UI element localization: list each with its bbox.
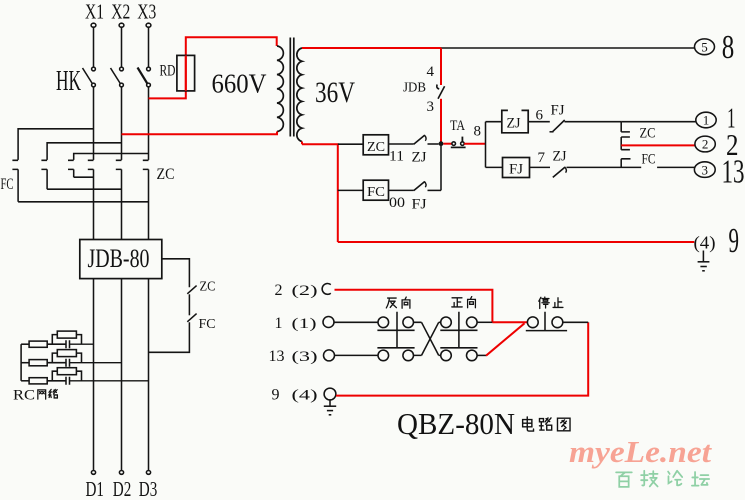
terminal X2 [119, 23, 124, 27]
svg-text:JDB-80: JDB-80 [88, 244, 150, 273]
terminal 2 [695, 136, 715, 152]
terminal 3 [694, 162, 715, 178]
button reverse plunger [377, 312, 414, 348]
svg-text:myeLe.net: myeLe.net [569, 434, 712, 469]
contact TA transformer tap [443, 137, 465, 148]
wire red phase3 to fuse RD [149, 37, 277, 98]
wire cross diagonal a [422, 322, 439, 355]
contact FC auxiliary chevron [187, 314, 196, 322]
RC branch 1 resistor R1 [21, 341, 66, 347]
RC network left bus [20, 344, 22, 381]
terminal 5 [695, 39, 715, 55]
interlock middle section [621, 137, 630, 150]
svg-text:(4): (4) [292, 388, 318, 404]
transformer core [290, 38, 294, 137]
wire FC crossover a to phase3 [18, 201, 148, 203]
svg-text:5: 5 [701, 40, 708, 55]
terminal D1 [91, 471, 95, 475]
wire red bottom bus to terminal 4 [338, 241, 694, 243]
svg-text:ZJ: ZJ [412, 150, 427, 166]
label 13(3) [269, 348, 318, 365]
label 9(4) [272, 387, 318, 404]
RC branch 1 parallel resistor [52, 331, 81, 344]
wire FC crossover b to phase2 [47, 188, 121, 190]
svg-text:ZJ: ZJ [507, 116, 521, 132]
svg-text:(3): (3) [292, 349, 318, 365]
svg-text:11: 11 [389, 149, 404, 165]
contact ZJ normally-open row2 [553, 167, 641, 178]
coil box FC [363, 180, 388, 200]
svg-text:D3: D3 [139, 477, 158, 500]
wire red secondary top [302, 47, 441, 49]
wire phase3 to D3 [148, 279, 150, 471]
fuse RD [177, 55, 195, 91]
svg-text:FC: FC [367, 185, 385, 200]
RC branch 1 capacitor C1 [66, 340, 94, 348]
RC branch 2 resistor R2 [21, 360, 66, 366]
wire red diagonal interlock [486, 323, 525, 355]
wire red JDB contact lower [440, 99, 442, 144]
label tingzhi stop [539, 297, 563, 308]
wire red JDB contact upper [440, 48, 442, 85]
wire phase1 branch to FC contact 1 [18, 129, 93, 160]
wire forward top to junction [477, 321, 492, 323]
terminal 13(3) [324, 350, 335, 361]
svg-text:FJ: FJ [412, 197, 427, 213]
svg-text:(4): (4) [694, 233, 716, 254]
svg-text:1: 1 [275, 315, 283, 332]
wire phase 1 vertical [93, 87, 95, 160]
wire red terminal2 to stop branch [335, 290, 493, 323]
wire stop to red return [563, 321, 588, 323]
protection relay JDB-80 [80, 240, 162, 279]
terminal 1(1) [323, 317, 334, 328]
svg-text:FJ: FJ [551, 103, 565, 119]
svg-text:660V: 660V [212, 69, 267, 99]
contact ZC pole c [143, 160, 149, 239]
wire aux branch to phase3 [149, 322, 190, 352]
contact ZC auxiliary chevron [187, 286, 196, 294]
wire to FJ coil [486, 166, 503, 168]
label 1(1) [275, 315, 317, 332]
svg-text:8: 8 [722, 29, 735, 66]
contact FC pole b [41, 160, 47, 189]
wire phase3 branch to FC contact 3 [74, 154, 149, 160]
svg-text:TA: TA [450, 118, 465, 134]
wire relay branch vertical [485, 122, 487, 168]
contact ZC pole b [116, 160, 122, 239]
interlock contact FC right [621, 159, 630, 168]
RC branch 2 parallel resistor [52, 350, 81, 363]
svg-text:RD: RD [160, 63, 176, 80]
RC branch 3 parallel resistor [52, 368, 81, 381]
switch HK pole 3 [138, 27, 151, 87]
terminal X3 [146, 23, 151, 27]
svg-text:ZC: ZC [640, 125, 656, 141]
svg-text:(2): (2) [292, 283, 318, 299]
svg-text:3: 3 [427, 99, 435, 115]
svg-text:X1: X1 [85, 0, 104, 24]
svg-text:2: 2 [275, 282, 283, 299]
svg-text:ZC: ZC [200, 280, 216, 295]
RC branch 2 capacitor C2 [66, 359, 122, 367]
wire FC crossover c to phase1 [74, 176, 94, 178]
wire secondary to ZC coil [338, 143, 363, 145]
svg-text:FC: FC [1, 176, 14, 193]
wire phase1 to D1 [93, 279, 95, 471]
svg-text:1: 1 [703, 113, 710, 128]
svg-text:9: 9 [272, 387, 280, 404]
RC branch 3 capacitor C3 [66, 377, 149, 385]
interlock contact ZC right [621, 122, 630, 132]
wire terminal13 to reverse button [335, 354, 378, 356]
label 2(2) [275, 282, 318, 299]
svg-text:X3: X3 [137, 0, 156, 24]
wire red terminal9 to stop return [336, 322, 588, 395]
wire red TA to relay branch [464, 143, 485, 145]
button stop NC contact [527, 317, 562, 328]
wire row1 to terminal 1 [621, 121, 696, 123]
wire FC coil to FJ contact [389, 189, 414, 191]
wire FJ row up to TA junction [440, 146, 442, 190]
contact FC pole c [68, 160, 74, 177]
contact JDB interlock [437, 85, 445, 99]
svg-text:RC: RC [13, 388, 35, 404]
relay coil ZJ [502, 110, 528, 132]
svg-text:7: 7 [538, 150, 546, 166]
terminal D2 [119, 471, 123, 475]
svg-text:HK: HK [56, 65, 81, 97]
watermark baiji luntan [616, 471, 709, 487]
terminal X1 [91, 23, 96, 27]
wire between aux contacts [188, 294, 190, 315]
wire red primary bottom to phase 2 [122, 132, 278, 135]
svg-text:JDB: JDB [403, 81, 426, 96]
relay coil FJ [503, 158, 530, 178]
ground symbol right [698, 251, 710, 271]
svg-text:8: 8 [474, 124, 482, 140]
label zhengxiang forward [452, 297, 476, 308]
RC branch 3 resistor R3 [21, 378, 66, 384]
svg-text:FJ: FJ [509, 162, 523, 178]
svg-text:36V: 36V [315, 76, 355, 109]
svg-text:13: 13 [269, 348, 285, 365]
wire forward bottom stub [477, 354, 486, 356]
terminal 9(4) [324, 388, 336, 400]
wire row3 to terminal 13 [657, 166, 696, 168]
terminal 1 [696, 112, 716, 128]
label fanxiang reverse [386, 297, 410, 308]
wire cross stub top [414, 321, 441, 323]
contact FJ normally-closed [550, 120, 622, 132]
contact FJ normally-open [414, 181, 441, 190]
svg-text:ZC: ZC [157, 166, 175, 183]
wire FJ coil to ZJ no contact [530, 166, 551, 168]
wire to ZJ coil [486, 121, 502, 123]
svg-text:3: 3 [702, 162, 709, 177]
wire phase2 branch to FC contact 2 [47, 143, 121, 160]
transformer T1 primary winding 660V [277, 46, 283, 132]
switch HK pole 2 [111, 27, 124, 87]
wire cross diagonal b [422, 322, 439, 355]
svg-text:4: 4 [427, 64, 435, 80]
transformer T1 secondary winding 36V [297, 48, 302, 142]
button forward NC contact [441, 350, 477, 361]
wire red bus to FC coil [338, 189, 363, 191]
wire JDB-80 output branch [162, 259, 190, 288]
svg-text:2: 2 [702, 137, 709, 152]
coil box ZC [363, 135, 388, 155]
wire phase2 to D2 [121, 279, 123, 471]
wire cross stub bottom [414, 354, 441, 356]
svg-text:6: 6 [536, 108, 544, 124]
wire ZJ coil to FJ break contact [528, 121, 550, 123]
ground symbol left [324, 400, 336, 415]
svg-text:X2: X2 [111, 0, 130, 24]
contact ZJ normally-open [414, 135, 439, 144]
button reverse NO contact [378, 317, 414, 328]
wire ZC coil to ZJ contact [389, 143, 414, 145]
wire red middle to terminal 2 [621, 144, 696, 146]
button forward NO contact [441, 317, 477, 328]
title dianlutu characters [523, 417, 570, 431]
contact ZC pole a [88, 160, 94, 239]
wire secondary top to terminal 5 [441, 47, 694, 49]
button forward plunger [440, 312, 477, 348]
svg-text:9: 9 [729, 221, 740, 260]
svg-text:QBZ-80N: QBZ-80N [397, 406, 515, 441]
svg-text:13: 13 [722, 154, 745, 191]
wire phase 3 vertical [148, 87, 150, 160]
wire red junction to stop [492, 321, 527, 323]
wire terminal1 to reverse button [334, 321, 378, 323]
svg-text:ZJ: ZJ [553, 149, 567, 165]
svg-text:FC: FC [199, 317, 216, 332]
button stop plunger [526, 312, 567, 331]
contact FC pole a [12, 160, 18, 202]
terminal D3 [146, 471, 150, 475]
switch HK pole 1 [83, 27, 96, 87]
svg-text:D1: D1 [86, 477, 105, 500]
svg-text:(1): (1) [292, 316, 317, 332]
svg-text:ZC: ZC [367, 140, 385, 155]
button reverse NC contact [378, 350, 414, 361]
wire red secondary bottom [302, 142, 338, 243]
wire phase 2 vertical [121, 87, 123, 160]
junction node TA [439, 141, 444, 146]
svg-text:00: 00 [389, 195, 405, 211]
label RC network [13, 388, 57, 404]
terminal 2(2) [322, 284, 331, 295]
svg-text:FC: FC [642, 151, 656, 167]
svg-text:D2: D2 [113, 477, 132, 500]
